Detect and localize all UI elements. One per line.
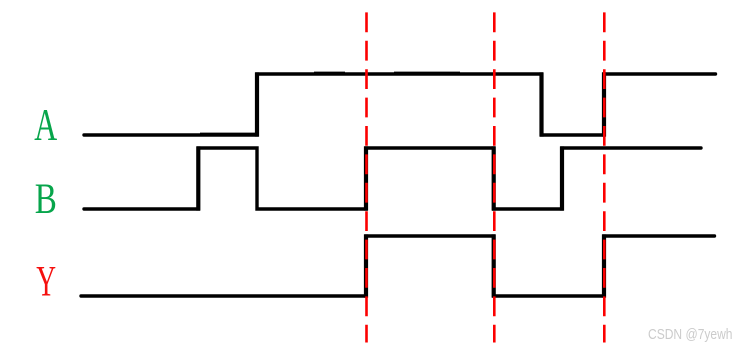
svg-text:Y: Y: [36, 257, 56, 305]
svg-text:A: A: [34, 101, 57, 151]
svg-text:CSDN @7yewh: CSDN @7yewh: [648, 327, 733, 343]
svg-text:B: B: [35, 176, 57, 223]
